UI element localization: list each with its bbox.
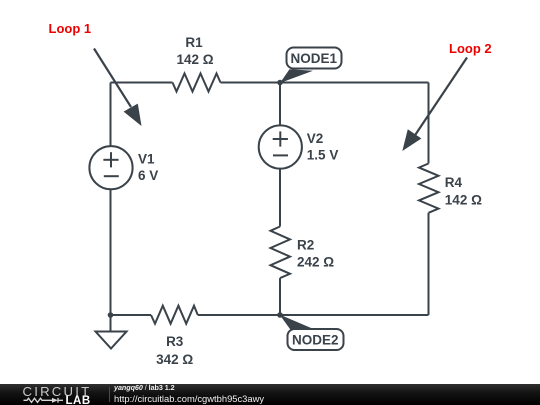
svg-text:R3: R3	[166, 334, 184, 349]
svg-text:LAB: LAB	[66, 395, 91, 405]
svg-text:NODE2: NODE2	[292, 333, 339, 348]
svg-text:Loop 2: Loop 2	[449, 41, 492, 56]
svg-text:R1: R1	[185, 35, 203, 50]
svg-text:142 Ω: 142 Ω	[445, 193, 482, 208]
svg-text:V1: V1	[138, 151, 155, 166]
svg-text:142 Ω: 142 Ω	[176, 52, 213, 67]
svg-text:R2: R2	[297, 238, 314, 253]
svg-text:342 Ω: 342 Ω	[156, 352, 193, 367]
svg-text:6 V: 6 V	[138, 168, 158, 183]
svg-text:NODE1: NODE1	[291, 51, 338, 66]
svg-text:Loop 1: Loop 1	[49, 21, 92, 36]
svg-text:R4: R4	[445, 175, 463, 190]
svg-text:V2: V2	[307, 131, 324, 146]
svg-text:1.5 V: 1.5 V	[307, 148, 339, 163]
svg-text:242 Ω: 242 Ω	[297, 255, 334, 270]
